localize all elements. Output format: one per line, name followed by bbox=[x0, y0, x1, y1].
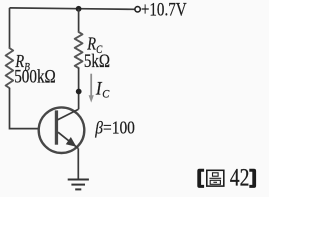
wire collector branch lower bbox=[78, 68, 80, 109]
transistor Q1 collector lead bbox=[58, 109, 79, 120]
svg-text:42: 42 bbox=[230, 163, 250, 191]
wire left branch upper bbox=[9, 8, 11, 48]
transistor Q1 emitter lead bbox=[58, 132, 78, 148]
ground bbox=[68, 180, 89, 190]
transistor Q1 circle bbox=[39, 107, 85, 153]
wire top rail bbox=[10, 8, 135, 9]
transistor Q1 base bar bbox=[55, 110, 58, 144]
svg-text:+10.7V: +10.7V bbox=[141, 0, 187, 20]
resistor RC bbox=[75, 32, 83, 68]
figure caption character 圖 bbox=[207, 170, 224, 186]
node collector bbox=[76, 89, 82, 95]
svg-text:IC: IC bbox=[95, 78, 110, 101]
wire emitter to ground bbox=[77, 148, 79, 179]
transistor Q1 emitter arrowhead bbox=[67, 138, 76, 146]
svg-text:500kΩ: 500kΩ bbox=[14, 66, 56, 87]
node top junction bbox=[76, 6, 82, 12]
svg-text:5kΩ: 5kΩ bbox=[84, 51, 110, 72]
svg-text:β=100: β=100 bbox=[94, 118, 135, 138]
wire collector branch upper bbox=[78, 9, 80, 32]
terminal +10.7V bbox=[135, 7, 140, 12]
resistor RB bbox=[6, 48, 14, 88]
wire left branch lower bbox=[10, 88, 39, 129]
current arrow IC bbox=[89, 74, 94, 103]
figure caption bracket right bbox=[249, 169, 256, 188]
figure caption bracket left bbox=[197, 169, 204, 188]
